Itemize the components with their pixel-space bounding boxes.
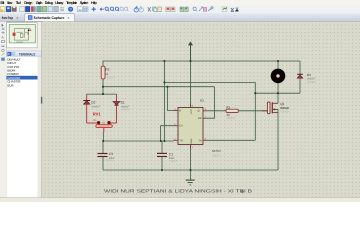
svg-text:×: × (16, 16, 18, 20)
wire trigger branch horizontal (103, 86, 215, 88)
svg-text:<TEXT>: <TEXT> (226, 117, 236, 120)
wire VCC top rail (103, 60, 300, 62)
junction node VCC rail center (189, 60, 191, 62)
op-amp U1 555 timer body (178, 99, 222, 158)
svg-text:D2: D2 (91, 100, 95, 104)
junction node VCC rail left (163, 60, 165, 62)
wire R2 top lead (102, 61, 104, 67)
wire ground rail (103, 169, 278, 171)
svg-text:<TEXT>: <TEXT> (280, 111, 290, 114)
origin marker (241, 190, 244, 193)
wire C1 top lead (161, 141, 163, 153)
menu bar (0, 0, 360, 6)
svg-text:CV: CV (179, 125, 183, 128)
wire R3 to Q1 gate (238, 110, 267, 112)
svg-text:GND: GND (190, 138, 193, 143)
diode D2 (83, 94, 100, 123)
wire buzzer top lead (277, 61, 279, 69)
svg-text:RV1: RV1 (93, 111, 102, 116)
wire VCC-to-TH loop horizontal (164, 81, 255, 83)
junction node C1 ground (161, 169, 163, 171)
diode D3 flyback (297, 73, 316, 84)
wire D3 branch verticals (299, 61, 301, 74)
svg-text:1N4007: 1N4007 (91, 106, 100, 109)
junction node Q1 drain (277, 92, 279, 94)
svg-text:C3: C3 (109, 152, 113, 156)
svg-text:Home Page: Home Page (2, 16, 13, 20)
resistor R2 (101, 66, 115, 80)
wire C3 bottom lead (102, 157, 104, 170)
svg-text:D1: D1 (121, 100, 125, 104)
wire buzzer bottom lead (277, 83, 279, 93)
svg-text:Template: Template (66, 1, 77, 5)
svg-text:<TEXT>: <TEXT> (121, 109, 131, 112)
capacitor C3 (98, 152, 116, 163)
toolbar (0, 6, 360, 13)
wire VCC-to-TH loop vertical (254, 82, 256, 140)
svg-text:<TEXT>: <TEXT> (307, 81, 317, 84)
wire DC pin riser (208, 87, 214, 119)
tab bar (0, 13, 360, 22)
U1 pin numbers (174, 104, 206, 149)
ground symbol (186, 180, 195, 185)
svg-text:View: View (7, 1, 13, 5)
junction node diode rail (102, 93, 104, 95)
wire R2 bottom to diode rail (102, 79, 104, 94)
wire ground terminal lead (190, 170, 192, 180)
junction node R-pin branch (167, 86, 169, 88)
junction node TR wiper (102, 140, 104, 142)
svg-text:TERMINALS: TERMINALS (19, 52, 36, 56)
wire TH to source column (208, 139, 255, 141)
terminals list (7, 57, 38, 198)
wire pot wiper down (102, 132, 104, 141)
svg-text:Q1: Q1 (280, 102, 284, 106)
wire Q1 drain column (277, 93, 279, 103)
buzzer LS1 (271, 69, 286, 84)
junction node TR rail drop (163, 140, 165, 142)
wire Q output to R3 (208, 110, 226, 112)
svg-text:R2: R2 (105, 67, 109, 71)
svg-text:BUS: BUS (7, 83, 13, 87)
svg-text:TH: TH (198, 139, 202, 142)
wire U1 VCC to rail (190, 61, 192, 108)
svg-text:DC: DC (198, 117, 202, 120)
left edit-mode toolbar (0, 21, 7, 197)
svg-text:D3: D3 (307, 73, 311, 77)
resistor R3 (226, 105, 238, 120)
junction node TH loop (254, 92, 256, 94)
overview (world view) panel (7, 23, 38, 48)
wire branch down to R pin (168, 87, 174, 111)
svg-text:P: P (8, 52, 10, 56)
svg-text:WIDI NUR SEPTIANI & LIDYA NING: WIDI NUR SEPTIANI & LIDYA NINGSIH - XI T… (104, 188, 252, 193)
power terminal VCC (188, 41, 193, 61)
wire U1 GND to rail (190, 145, 192, 171)
svg-text:<TEXT>: <TEXT> (104, 160, 114, 163)
svg-text:<TEXT>: <TEXT> (212, 154, 222, 157)
potentiometer RV1 (tagged red) (87, 111, 117, 132)
svg-text:Help: Help (91, 1, 97, 5)
junction node branch at R2 bottom (102, 86, 104, 88)
svg-text:NE555: NE555 (212, 149, 222, 153)
junction node CV drop (160, 140, 162, 142)
svg-text:<TEXT>: <TEXT> (105, 77, 115, 80)
transistor Q1 MOSFET (262, 102, 290, 114)
U1 pin names (179, 109, 202, 144)
schematic canvas (42, 21, 360, 197)
wire TR node horizontal (103, 140, 173, 142)
svg-text:Library: Library (55, 1, 64, 5)
svg-text:Schematic Capture: Schematic Capture (34, 16, 65, 20)
svg-text:Debug: Debug (45, 1, 54, 5)
wire Q1 source column (277, 109, 279, 170)
junction node H1 corner (163, 81, 165, 83)
wire C1 bottom lead (161, 157, 163, 170)
left-edge wire fragment (41, 97, 42, 104)
wire diode top rail (87, 93, 117, 95)
svg-text:Q: Q (197, 110, 199, 113)
svg-text:VCC: VCC (190, 109, 193, 114)
diode D1 (113, 94, 130, 123)
svg-text:R: R (179, 110, 181, 113)
object selector header (7, 51, 42, 57)
wire CV loop (161, 126, 174, 141)
junction node VCC rail buzzer (277, 60, 279, 62)
svg-text:C1: C1 (169, 152, 173, 156)
svg-text:<TEXT>: <TEXT> (169, 160, 179, 163)
wire C3 top lead (102, 141, 104, 153)
svg-text:IRF540: IRF540 (280, 107, 289, 110)
svg-text:×: × (67, 16, 69, 20)
svg-text:System: System (80, 1, 89, 5)
U1 pin stubs (173, 104, 208, 149)
status bar (0, 198, 360, 203)
svg-text:Graph: Graph (36, 1, 43, 5)
svg-text:TR: TR (179, 139, 183, 142)
wire drain node horizontal (255, 92, 300, 94)
svg-text:R3: R3 (226, 105, 230, 109)
svg-text:Tool: Tool (16, 1, 22, 5)
svg-text:Design: Design (24, 1, 33, 5)
svg-text:U1: U1 (200, 99, 204, 103)
junction node ground rail (189, 169, 191, 171)
wire rail to TR node vertical (163, 61, 165, 141)
capacitor C1 (157, 152, 179, 163)
